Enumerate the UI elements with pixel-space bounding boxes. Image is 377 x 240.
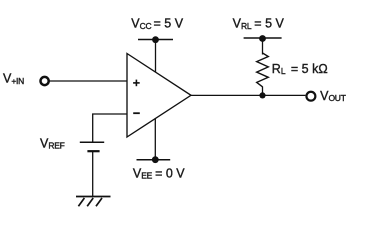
wire: op-amp output to VOUT terminal (191, 94, 305, 96)
wire: VRL to resistor top (262, 39, 264, 55)
op-amp plus input marking (133, 80, 140, 87)
VRL junction dot (259, 35, 266, 42)
wire: resistor bottom to output node (262, 87, 264, 96)
VCC junction dot (152, 36, 159, 43)
wire: op-amp bottom to VEE (154, 118, 156, 159)
op-amp minus input marking (133, 112, 140, 114)
VRL supply terminal bar (244, 37, 282, 39)
VCC supply terminal bar (138, 39, 173, 41)
ground symbol (76, 197, 111, 207)
svg-text:= 5 kΩ: = 5 kΩ (291, 62, 328, 76)
VEE supply terminal bar (137, 159, 171, 161)
VEE junction dot (152, 156, 159, 163)
svg-text:= 0 V: = 0 V (155, 166, 185, 180)
wire: VCC to op-amp top (155, 40, 157, 72)
svg-text:= 5 V: = 5 V (254, 17, 284, 31)
node VOUT output terminal (open circle) (306, 92, 315, 101)
battery VREF positive plate (long) (80, 141, 104, 143)
wire: battery to ground (92, 152, 94, 197)
op-amp U1 triangle (127, 54, 191, 138)
wire: op-amp inverting input to VREF branch (93, 114, 127, 142)
resistor RL zigzag (257, 53, 269, 87)
node V+IN input terminal (open circle) (41, 77, 49, 85)
wire: V+IN terminal to op-amp noninverting input (49, 80, 127, 82)
battery VREF negative plate (short) (87, 150, 99, 152)
svg-text:= 5 V: = 5 V (154, 17, 184, 31)
junction dot at output node (259, 92, 265, 98)
